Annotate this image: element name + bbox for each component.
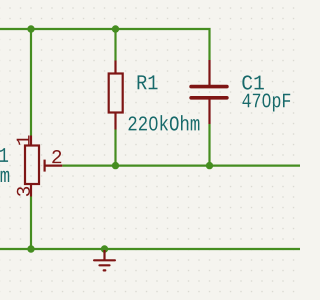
RV1 wiper arrow (pin 2) — [45, 160, 63, 172]
junction: bottom bus at GND — [101, 245, 108, 252]
wire: RV1 pin 3 down to bottom bus — [30, 197, 32, 250]
label RV1 reference (clipped at left edge) — [0, 148, 8, 162]
pin number 3 — [17, 187, 30, 196]
wire: top horizontal with corner down to C1 — [0, 29, 210, 60]
ground symbol GND — [94, 250, 115, 270]
label R1 reference — [138, 75, 158, 89]
label RV1 value 10kOhm (clipped at left edge) — [0, 167, 9, 182]
wire: middle horizontal bus — [62, 165, 300, 167]
label C1 reference — [242, 75, 263, 89]
label R1 value 220kOhm — [129, 115, 200, 130]
junction: top at R1 — [112, 25, 119, 32]
resistor R1 — [109, 61, 123, 130]
junction: top left — [27, 25, 34, 32]
wire: R1 bottom to middle bus — [114, 130, 116, 166]
wire: bottom horizontal bus — [0, 248, 300, 250]
junction: bottom bus at RV1 — [27, 245, 34, 252]
junction: middle bus at R1 — [112, 162, 119, 169]
wire: R1 top — [114, 29, 116, 61]
potentiometer RV1 — [25, 136, 39, 197]
wire: left vertical to RV1 pin 1 — [30, 29, 32, 136]
pin number 2 — [52, 150, 61, 163]
capacitor C1 — [191, 60, 227, 124]
wire: C1 bottom to middle bus — [208, 124, 210, 166]
label C1 value 470pF — [242, 93, 290, 111]
pin number 1 — [17, 135, 30, 144]
junction: middle bus at C1 — [206, 162, 213, 169]
